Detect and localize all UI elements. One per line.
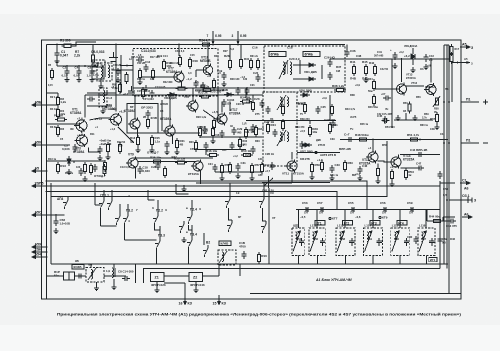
- label box KL4B: [219, 241, 231, 246]
- wire sw bus3: [175, 184, 177, 194]
- wire l9 top: [113, 264, 115, 268]
- wire switch h: [191, 225, 193, 237]
- tuned circuit L15 coil: [394, 232, 396, 242]
- diode VD6: [300, 93, 310, 97]
- resistor R15b: [150, 135, 153, 147]
- tuned circuit L13 box: [336, 228, 355, 256]
- tuned L10 core arrow: [219, 251, 227, 263]
- wire drop c: [192, 88, 194, 101]
- tuned circuit L14 core arrow: [365, 231, 373, 252]
- ground L3: [101, 108, 106, 114]
- AM IFT core arrow 2: [277, 130, 286, 146]
- top inner bus wire: [47, 44, 346, 46]
- svg-text:3: 3: [232, 34, 234, 38]
- ground r57: [250, 175, 255, 181]
- wire cap C8: [91, 66, 93, 69]
- label box КГ2: [343, 221, 353, 226]
- wire zq in: [46, 261, 48, 276]
- transistor VT14: [389, 156, 401, 169]
- resistor R44r: [372, 79, 375, 91]
- svg-text:А5: А5: [35, 167, 40, 171]
- variable resistor R58: [433, 96, 440, 107]
- capacitor C55: [349, 207, 357, 212]
- resistor R46: [207, 153, 219, 156]
- inductor L1 winding a: [101, 65, 103, 78]
- capacitor C45: [382, 116, 387, 124]
- capacitor C35: [299, 141, 304, 149]
- resistor R52: [220, 163, 223, 175]
- wire switch m: [203, 233, 205, 245]
- wire audio rail: [340, 139, 448, 141]
- capacitor C28: [155, 162, 160, 170]
- resistor R57: [250, 163, 253, 175]
- wire disc drop: [346, 45, 348, 50]
- capacitor C16: [219, 130, 224, 138]
- ground c33: [330, 175, 335, 181]
- inductor L9 winding: [112, 268, 114, 278]
- wire switch f: [191, 200, 193, 212]
- right vert wire c: [439, 181, 441, 269]
- junction left 252: [46, 251, 48, 253]
- FM IF strip box: [133, 49, 218, 97]
- resistor R13: [56, 162, 59, 174]
- wire vd3 up: [73, 161, 75, 163]
- capacitor C25: [315, 106, 320, 114]
- tuned circuit L15 box: [391, 228, 410, 256]
- ground r49: [376, 178, 381, 184]
- label box КГ1: [315, 221, 325, 226]
- ground C41: [393, 63, 398, 69]
- label box IG1: [429, 258, 437, 262]
- wire disc mid: [293, 64, 308, 66]
- wire switch e: [157, 200, 159, 213]
- wire L12 down: [316, 256, 318, 265]
- ground c31: [236, 173, 241, 179]
- capacitor C11a: [145, 110, 150, 118]
- wire sw bus1: [94, 183, 96, 205]
- wire dash leg: [161, 100, 163, 131]
- wire top mid join: [218, 87, 258, 89]
- resistor R34b: [240, 100, 252, 103]
- inductor L8 winding: [91, 270, 93, 280]
- label box KO4B: [72, 265, 84, 270]
- ground VT13e: [396, 115, 401, 121]
- wire drop g: [329, 95, 331, 121]
- capacitor C3: [72, 144, 77, 152]
- wire filter link: [164, 275, 189, 277]
- wire L16 down: [426, 256, 428, 265]
- capacitor C4: [76, 68, 81, 76]
- diode VD1: [306, 63, 316, 67]
- resistor R7: [91, 53, 94, 65]
- ground R15b: [150, 147, 155, 153]
- svg-text:7: 7: [207, 34, 209, 38]
- wire sw out2: [189, 225, 193, 230]
- paper grain overlay: [0, 0, 1, 1]
- wire bottom mid: [196, 182, 292, 184]
- inductor L1 core: [104, 65, 105, 77]
- junction a6c: [448, 216, 450, 218]
- resistor R31: [328, 122, 331, 134]
- capacitor C7: [97, 146, 102, 154]
- wire sw out1: [155, 225, 161, 230]
- wire right x452: [451, 63, 453, 103]
- svg-text:А6: А6: [464, 212, 469, 216]
- wire switch l: [263, 208, 267, 221]
- wire filter feed: [47, 275, 64, 277]
- wire tc drop4: [372, 210, 374, 229]
- resistor R14a: [138, 68, 141, 80]
- capacitor C2: [64, 68, 69, 76]
- resistor R36: [251, 100, 254, 112]
- transistor VT17: [215, 113, 227, 126]
- junction ar1: [372, 139, 374, 141]
- junction tc5: [411, 209, 413, 211]
- ground R50r: [413, 115, 418, 121]
- wire VT13 up: [401, 59, 403, 82]
- wire vt5 em: [136, 131, 138, 139]
- wire switch c: [119, 204, 121, 213]
- bottom bus wire 2: [143, 268, 440, 270]
- resistor R41: [352, 64, 355, 76]
- junction c2: [66, 65, 68, 67]
- wire caps row: [57, 65, 98, 67]
- capacitor C34c: [212, 164, 217, 172]
- junction leftb 186: [46, 185, 48, 187]
- bus wire y186: [47, 185, 441, 187]
- wire IF strip left: [132, 57, 134, 90]
- wire z2 right drop: [239, 264, 241, 276]
- terminal XS6: [32, 246, 47, 249]
- AM IFT core 1: [283, 97, 284, 106]
- wire a6b link: [443, 216, 455, 218]
- svg-text:9: 9: [39, 243, 41, 247]
- schematic border frame: [42, 40, 462, 299]
- resistor R53: [390, 169, 393, 181]
- resistor R55: [404, 168, 407, 180]
- resistor R44: [431, 219, 443, 222]
- junction tc4: [384, 209, 386, 211]
- junction left 171: [46, 170, 48, 172]
- transformer L7 core: [286, 62, 287, 74]
- wire vt17 up: [221, 102, 223, 113]
- transistor VT2: [109, 113, 122, 126]
- svg-text:П1: П1: [466, 97, 471, 101]
- transistor VT7: [172, 71, 184, 84]
- wire l8 top: [90, 264, 92, 268]
- svg-text:А5: А5: [464, 57, 468, 61]
- wire y196 seg: [248, 196, 300, 198]
- tuned circuit L12 box: [309, 228, 326, 256]
- wire L15 down: [399, 256, 401, 265]
- wire x392 vert: [391, 59, 393, 128]
- filter Z1: [151, 273, 165, 282]
- tuned circuit L11 cap: [299, 238, 304, 246]
- capacitor C50r: [437, 171, 442, 179]
- wire filter v1: [135, 264, 137, 283]
- inductor L8 core arrow: [88, 268, 96, 280]
- capacitor C29b: [231, 127, 236, 135]
- capacitor C47a: [416, 165, 424, 170]
- svg-text:6: 6: [39, 248, 41, 252]
- wire left column feed2: [47, 144, 71, 146]
- junction left 145: [46, 144, 48, 146]
- terminal Sb1: [461, 197, 472, 203]
- resistor R20c: [194, 140, 197, 152]
- capacitor C46: [357, 166, 362, 174]
- ground C16c: [165, 149, 170, 155]
- capacitor C31: [235, 163, 240, 171]
- capacitor C59: [408, 207, 416, 212]
- svg-text:0,15: 0,15: [48, 84, 53, 87]
- AM IFT winding 2a: [280, 132, 282, 142]
- junction left 257: [46, 256, 48, 258]
- resistor R12d: [89, 163, 92, 175]
- test point KT7: [329, 217, 331, 219]
- resistor R13b: [136, 135, 139, 147]
- switch P2.2: [153, 213, 158, 225]
- resistor R59r: [435, 112, 438, 124]
- wire AP4: [47, 214, 65, 216]
- ground switch stub 1: [183, 185, 185, 186]
- wire filter link2: [104, 275, 126, 277]
- wire base feed: [47, 123, 79, 125]
- svg-text:16: 16: [179, 302, 183, 306]
- capacitor C26: [327, 59, 332, 67]
- wire VT7 emitter: [181, 84, 196, 89]
- wire tc drop3: [344, 210, 346, 229]
- svg-text:15: 15: [213, 302, 217, 306]
- resistor R5b: [118, 82, 121, 94]
- resistor R2: [56, 95, 59, 107]
- resistor R1: [62, 44, 74, 47]
- transistor VT3: [75, 134, 88, 147]
- capacitor C13: [92, 164, 97, 172]
- wire y106 link: [87, 105, 112, 107]
- wire filter v2: [142, 269, 144, 284]
- top terminal stub 2: [237, 31, 240, 45]
- shield box small: [92, 60, 105, 65]
- diode VD7: [302, 143, 312, 147]
- tuned circuit L14 coil: [367, 232, 369, 242]
- junction left 105: [46, 104, 48, 106]
- resistor R25: [212, 78, 215, 90]
- ground c7: [98, 155, 103, 161]
- resistor R45: [364, 64, 367, 76]
- wire a6 link: [440, 182, 455, 184]
- resistor R33: [201, 88, 213, 91]
- resistor R26: [244, 127, 247, 139]
- resistor R35b: [151, 160, 163, 163]
- resistor R22a: [176, 87, 188, 90]
- wire VT7 up: [178, 45, 180, 57]
- resistor R34: [200, 43, 212, 46]
- junction top1: [56, 44, 58, 46]
- capacitor C5b: [87, 96, 95, 101]
- capacitor C44: [416, 152, 424, 157]
- switch AP4: [63, 197, 68, 209]
- transformer L7 secondary: [290, 62, 292, 75]
- wire sw drop a: [100, 210, 102, 226]
- agc diagonal arrow: [118, 127, 134, 143]
- tuned circuit L15 core arrow: [392, 231, 400, 252]
- wire vt9b em: [199, 173, 201, 185]
- switch P2.4: [187, 212, 192, 224]
- wire switch b: [111, 190, 113, 198]
- resistor R43: [330, 104, 333, 116]
- ground C4: [77, 77, 82, 83]
- wire disc mid2: [293, 78, 308, 80]
- resistor R39: [281, 119, 284, 131]
- wire caps drop: [56, 58, 58, 66]
- switch P5.4: [261, 221, 266, 233]
- tuned circuit L11 box: [292, 228, 305, 256]
- wire vt1 vt3 link: [81, 131, 84, 134]
- capacitor C17a: [193, 80, 198, 88]
- resistor R37: [281, 104, 284, 116]
- ground IF strip: [144, 85, 149, 91]
- bus wire y191: [47, 192, 338, 210]
- resistor R61: [320, 160, 323, 172]
- wire r44 link: [442, 217, 444, 221]
- wire L11 down: [297, 256, 299, 265]
- junction vt10: [207, 44, 209, 46]
- resistor R10b: [257, 252, 260, 264]
- resistor R25b: [198, 126, 201, 138]
- ground L8: [94, 285, 99, 291]
- capacitor C18b: [137, 166, 142, 174]
- capacitor C12a: [143, 64, 148, 72]
- inductor L3 box: [99, 88, 107, 107]
- wire vt10 link: [196, 69, 203, 71]
- ground R14a: [138, 79, 143, 85]
- label box 6P4B b: [303, 52, 320, 57]
- resistor R19: [162, 59, 165, 71]
- capacitor C43: [423, 54, 428, 62]
- wire mid link: [140, 132, 200, 134]
- capacitor C60: [413, 236, 418, 244]
- zener VD9: [411, 48, 415, 65]
- ground C58: [54, 228, 59, 234]
- resistor R19r: [450, 52, 453, 64]
- svg-text:П1: П1: [466, 138, 471, 142]
- wire tc drop6: [425, 210, 427, 229]
- resistor R49: [376, 166, 379, 178]
- svg-text:С32 НО: С32 НО: [296, 102, 305, 105]
- resistor R50r: [408, 102, 411, 114]
- junction left 186: [46, 185, 48, 187]
- junction p2a: [443, 142, 445, 144]
- transistor VT9b: [191, 160, 203, 173]
- cap series bus: [296, 209, 440, 211]
- wire r33 row: [195, 89, 224, 91]
- wire x206 drop: [205, 150, 207, 155]
- wire switch g: [159, 226, 161, 238]
- switch P1.1b: [107, 198, 112, 210]
- svg-text:0: 0: [39, 141, 41, 145]
- ground vt3: [106, 154, 111, 160]
- wire lower link: [51, 263, 196, 265]
- resistor R31a: [249, 58, 252, 70]
- svg-text:Д9В: Д9В: [316, 139, 321, 142]
- wire filter link3: [75, 275, 87, 277]
- wire pow row2: [394, 119, 433, 121]
- resistor R32a: [256, 58, 259, 70]
- capacitor C21: [250, 124, 255, 132]
- wire bot link: [164, 282, 185, 284]
- ground VD9: [411, 67, 416, 73]
- resistor R44c: [141, 87, 144, 99]
- resistor R6: [55, 118, 67, 121]
- resistor R38: [334, 88, 346, 91]
- diode VD4: [224, 93, 234, 97]
- terminal A5 right: [460, 46, 470, 49]
- ground R13b: [136, 147, 141, 153]
- wire x121 vertical: [120, 55, 122, 93]
- wire sw link3: [176, 193, 189, 195]
- resistor R14d: [103, 164, 106, 176]
- capacitor C30c: [229, 142, 234, 150]
- junction ar2: [419, 139, 421, 141]
- wire C58 up: [55, 215, 57, 218]
- junction x127: [126, 65, 128, 67]
- transistor VT8: [186, 100, 198, 113]
- capacitor C15: [202, 126, 207, 134]
- capacitor C58: [53, 218, 58, 226]
- filter ZQ2 box: [92, 67, 104, 79]
- resistor R3: [56, 125, 59, 137]
- terminal A6 right: [462, 216, 472, 219]
- capacitor C40c: [149, 90, 154, 98]
- capacitor C16b: [241, 251, 246, 259]
- switch V2: [203, 245, 208, 257]
- ground R15: [83, 176, 88, 182]
- label box КГ4: [397, 221, 407, 226]
- terminal XS5: [32, 214, 47, 217]
- wire sw drop c: [124, 225, 126, 240]
- wire vt10 base: [195, 70, 197, 77]
- switch P2.3: [179, 221, 184, 233]
- tuned circuit L14 box: [364, 228, 383, 256]
- junction leftb 191.5: [46, 191, 48, 193]
- ground C2: [65, 77, 70, 83]
- capacitor C17: [221, 99, 226, 107]
- ground C10b: [116, 77, 121, 83]
- capacitor C19a: [255, 74, 260, 82]
- terminal XS1: [32, 104, 47, 107]
- wire drop h: [245, 88, 247, 95]
- inductor L1 box: [97, 63, 112, 81]
- resistor R15: [83, 162, 86, 174]
- tuned circuit L13 coil: [340, 232, 342, 242]
- wire mid rail a2: [183, 87, 218, 89]
- capacitor C33: [329, 165, 334, 173]
- resistor R41c: [260, 162, 263, 174]
- wire L14 down: [372, 256, 374, 265]
- capacitor C9d: [78, 168, 83, 176]
- resistor R18a: [188, 57, 191, 69]
- wire vt14 out: [400, 167, 420, 169]
- junction vt15: [430, 58, 432, 60]
- filter ZQ1 piezo: [64, 272, 75, 280]
- right bus top link: [444, 44, 449, 46]
- svg-text:Сб.1: Сб.1: [462, 194, 470, 198]
- junction tc3: [352, 209, 354, 211]
- resistor R38b: [175, 161, 187, 164]
- ground r52: [220, 175, 225, 181]
- wire tc drop2: [316, 210, 318, 229]
- wire drop r34b: [245, 95, 247, 98]
